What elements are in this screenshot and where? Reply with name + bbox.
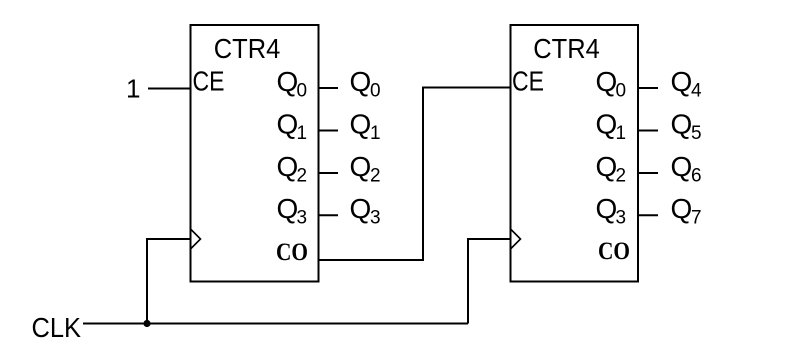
svg-text:Q: Q [671,193,693,224]
svg-text:1: 1 [297,123,308,144]
svg-text:Q: Q [277,66,299,97]
svg-text:Q: Q [671,66,693,97]
counter U1 (CTR4) body [191,25,319,282]
svg-text:Q: Q [596,108,618,139]
wire: U1 Q3 stub [319,214,339,216]
svg-text:Q: Q [350,108,372,139]
svg-text:3: 3 [370,208,381,229]
svg-text:2: 2 [616,165,627,186]
wire: U2 Q3 stub [638,214,658,216]
wire: U2 Q0 stub [638,87,658,89]
node label Q1 [350,108,381,144]
U2 pin label Q2 [596,151,627,187]
node label Q4 [671,66,703,102]
svg-text:0: 0 [297,81,308,102]
svg-text:2: 2 [370,165,381,186]
node label Q2 [350,151,381,187]
svg-text:Q: Q [596,151,618,182]
svg-text:1: 1 [370,123,381,144]
svg-text:Q: Q [277,193,299,224]
svg-text:CLK: CLK [32,312,82,343]
svg-text:CE: CE [193,66,225,97]
svg-text:3: 3 [297,208,308,229]
svg-text:Q: Q [596,66,618,97]
U2 pin label Q1 [596,108,627,144]
counter U2 (CTR4) body [511,25,639,282]
U2 pin label Q0 [596,66,627,102]
svg-text:1: 1 [616,123,627,144]
svg-text:CE: CE [512,66,544,97]
svg-text:Q: Q [350,151,372,182]
svg-text:4: 4 [691,81,702,102]
wire: constant 1 to U1 CE [148,88,191,90]
wire: U2 Q1 stub [638,130,658,132]
svg-text:Q: Q [671,108,693,139]
U2 clock pin chevron [511,229,521,249]
svg-text:6: 6 [691,165,702,186]
U1 pin label Q3 [277,193,308,229]
svg-text:Q: Q [596,193,618,224]
junction on CLK net [143,320,150,327]
svg-text:0: 0 [370,81,381,102]
wire: U1 Q1 stub [319,130,339,132]
U1 pin label Q2 [277,151,308,187]
wire: CLK branch to U1 clock [147,239,191,324]
wire: U1 CO to U2 CE [319,88,511,261]
wire: U2 Q2 stub [638,172,658,174]
svg-text:Q: Q [671,151,693,182]
node label Q7 [671,193,702,229]
svg-text:CO: CO [598,238,630,265]
svg-text:2: 2 [297,165,308,186]
wire: CLK bus [83,323,468,325]
U1 pin label Q1 [277,108,308,144]
node label Q6 [671,151,702,187]
svg-text:3: 3 [616,208,627,229]
node label Q3 [350,193,381,229]
svg-text:Q: Q [350,66,372,97]
svg-text:1: 1 [126,74,140,104]
svg-text:5: 5 [691,123,702,144]
svg-text:CO: CO [276,239,308,266]
svg-text:0: 0 [616,81,627,102]
wire: U1 Q2 stub [319,172,339,174]
svg-text:CTR4: CTR4 [214,33,280,64]
U1 clock pin chevron [191,229,201,249]
svg-text:7: 7 [691,208,702,229]
svg-text:Q: Q [277,151,299,182]
U2 pin label Q3 [596,193,627,229]
node label Q0 [350,66,381,102]
wire: CLK branch to U2 clock [468,239,511,324]
U1 pin label Q0 [277,66,308,102]
svg-text:Q: Q [350,193,372,224]
svg-text:Q: Q [277,108,299,139]
wire: U1 Q0 stub [319,87,339,89]
node label Q5 [671,108,702,144]
svg-text:CTR4: CTR4 [533,33,600,64]
